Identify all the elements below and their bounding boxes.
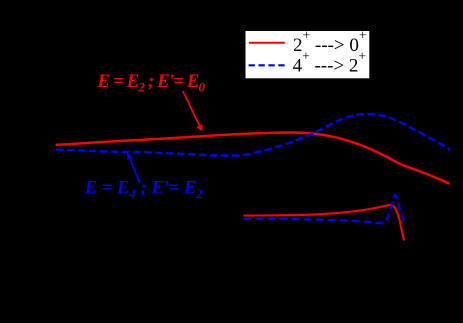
svg-text:E = E2 ; E'= E0: E = E2 ; E'= E0 (97, 72, 206, 95)
svg-text:E = E4 ; E'= E2: E = E4 ; E'= E2 (84, 179, 203, 202)
